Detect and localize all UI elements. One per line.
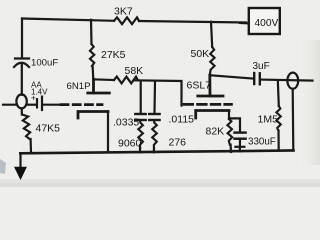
capacitor .0335 branch wire [140,81,142,114]
wire top rail B+ [22,19,114,21]
wire output jack sleeve to rail [292,89,295,151]
tube 6SL7 plate [198,75,223,96]
wire 3uF to output jack [261,80,313,81]
resistor 58K [114,77,138,84]
wire 6SL7 plate node to 3uF [210,75,254,78]
wire B+ to 400V box [240,22,249,25]
svg-text:.0115: .0115 [169,114,195,126]
resistor 82K [227,119,232,145]
svg-text:6SL7: 6SL7 [187,80,212,92]
svg-text:+: + [31,94,36,103]
resistor 1M5 [276,106,280,131]
wire jack to battery [27,104,36,106]
svg-text:276: 276 [169,137,187,149]
wire 330uF to rail [235,139,244,152]
wire 100uF to input jack [21,64,23,95]
tube 6SL7 cathode [196,111,229,119]
svg-text:9060: 9060 [118,138,142,150]
svg-text:3K7: 3K7 [114,6,133,18]
wire bottom ground rail [20,151,293,154]
svg-text:1M5: 1M5 [258,114,279,126]
svg-text:47K5: 47K5 [36,123,61,135]
svg-text:3uF: 3uF [253,61,270,72]
wire cathode node to 330uF [229,118,240,132]
wire 6N1P plate node to 58K [93,78,114,81]
resistor 3K7 [114,17,139,24]
svg-text:100uF: 100uF [31,58,58,69]
wire 6SL7 cathode to node [228,111,230,120]
capacitor 330uF [235,133,246,139]
wire 82K to rail [230,145,233,152]
tube 6N1P cathode [78,112,108,119]
svg-text:27K5: 27K5 [101,49,126,61]
wire 276 to rail [153,148,155,152]
wire input stub [3,104,17,106]
svg-text:58K: 58K [125,65,144,77]
wire 58K to grid corner [134,80,182,105]
capacitor 3uF [254,73,260,84]
svg-text:330uF: 330uF [248,137,276,148]
svg-text:6N1P: 6N1P [67,81,91,92]
svg-text:.0335: .0335 [113,117,139,129]
wire 47K5 to bottom rail [30,139,33,153]
supply box 400V [249,8,280,34]
output jack J2 [287,73,298,89]
tube 6N1P plate [88,79,110,93]
tube 6SL7 grid [184,103,231,106]
resistor 27K5 vertical [90,20,94,79]
wire battery to grid 6N1P [43,104,61,106]
wire left rail down to 100uF [21,19,23,58]
svg-text:50K: 50K [191,48,210,60]
capacitor .0115 [149,114,159,120]
wire output node to 1M5 [278,80,279,106]
battery AA 1.4V [37,97,42,110]
wire jack to 47K5 [21,108,23,114]
ground [14,167,27,180]
wire ground stub [19,153,21,167]
svg-text:400V: 400V [255,18,279,29]
wire 9060 to rail [139,148,141,152]
input jack J1 [16,94,26,108]
resistor 47K5 [22,115,30,139]
resistor 276 [152,120,157,148]
capacitor .0335 [135,114,145,120]
wire 6N1P cathode to ground [107,112,109,153]
tube 6N1P grid [61,103,102,106]
capacitor .0115 branch wire [153,81,156,114]
wire 1M5 to rail [277,131,279,151]
resistor 9060 [138,120,143,148]
svg-text:82K: 82K [206,126,225,138]
wire top rail right of 3K7 [139,21,246,23]
resistor 50K vertical [210,22,215,75]
capacitor 100uF [14,59,29,68]
